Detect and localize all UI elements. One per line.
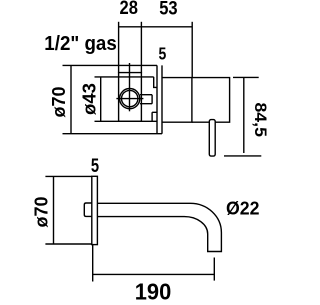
valve centerline horizontal [116, 98, 143, 100]
svg-text:ø70: ø70 [49, 87, 69, 118]
lever handle (side view, pointing down) [209, 120, 215, 157]
svg-text:53: 53 [159, 0, 177, 20]
dimension o70 top view: lower extension line [63, 133, 158, 135]
svg-text:ø70: ø70 [32, 197, 52, 228]
dimension 84,5: upper extension line [233, 76, 259, 78]
dimension o43: upper extension line (continues into body step) [95, 76, 154, 78]
extension line right of 53 [191, 22, 193, 78]
dimension o70 bottom: dimension line [53, 176, 55, 244]
svg-text:190: 190 [135, 279, 172, 301]
dimension 190: left extension line [92, 245, 94, 282]
wall plate (top view, edge-on) [157, 65, 162, 133]
dimension 84,5: lower extension line [224, 155, 261, 157]
dimension o70 top view: upper extension line [63, 64, 158, 66]
extension line left of 28 [118, 22, 120, 73]
svg-text:84,5: 84,5 [251, 102, 270, 137]
dimension o43: lower extension line [95, 120, 158, 122]
extension line between 28 and 53 [140, 22, 142, 73]
dimension 84,5: dimension line [243, 77, 245, 153]
dimension 190: right extension line [213, 258, 215, 281]
svg-text:28: 28 [120, 0, 138, 19]
dimension o70 bottom: lower extension line [45, 243, 91, 245]
valve cartridge outer circle [120, 89, 140, 109]
svg-text:5: 5 [159, 44, 167, 64]
wall plate (bottom view) [92, 176, 98, 244]
valve centerline vertical [129, 63, 131, 111]
valve cartridge inner circle [122, 90, 138, 106]
svg-text:Ø22: Ø22 [226, 198, 260, 218]
supply connector notch [84, 203, 92, 216]
dimension line 28/53 [119, 26, 193, 28]
tab lower line circle to step [140, 95, 152, 104]
valve housing block [119, 73, 142, 122]
dimension o70 bottom: upper extension line [45, 175, 91, 177]
housing step lower right [152, 112, 157, 121]
mixer body rectangle [162, 78, 192, 123]
housing step upper right [154, 77, 157, 88]
dimension o43: dimension line [100, 77, 102, 121]
svg-text:5: 5 [91, 156, 100, 177]
tab upper line circle to step [140, 94, 152, 96]
svg-text:ø43: ø43 [80, 83, 100, 115]
svg-text:1/2" gas: 1/2" gas [44, 33, 117, 55]
spout tube outline [97, 203, 221, 251]
dimension 190: dimension line [93, 273, 215, 275]
dimension o70 top view: dimension line [70, 65, 72, 133]
handle block rectangle [192, 78, 230, 123]
